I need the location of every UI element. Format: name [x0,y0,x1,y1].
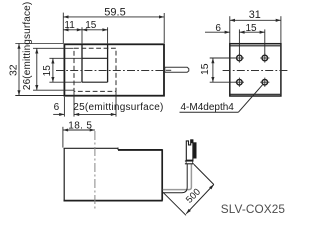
svg-text:31: 31 [249,9,261,21]
svg-text:15: 15 [245,23,257,34]
svg-text:15: 15 [85,20,97,31]
svg-text:59.5: 59.5 [104,6,125,18]
svg-text:SLV-COX25: SLV-COX25 [221,202,286,216]
svg-text:18. 5: 18. 5 [68,120,92,131]
svg-text:32: 32 [7,64,19,76]
svg-text:15: 15 [200,63,211,75]
svg-text:15: 15 [42,65,53,77]
svg-text:6: 6 [215,23,221,34]
svg-text:6: 6 [54,102,60,113]
svg-text:26(emittingsurface): 26(emittingsurface) [22,2,33,90]
svg-text:25(emittingsurface): 25(emittingsurface) [73,102,163,113]
svg-text:11: 11 [64,20,75,31]
svg-text:4-M4depth4: 4-M4depth4 [181,102,235,113]
